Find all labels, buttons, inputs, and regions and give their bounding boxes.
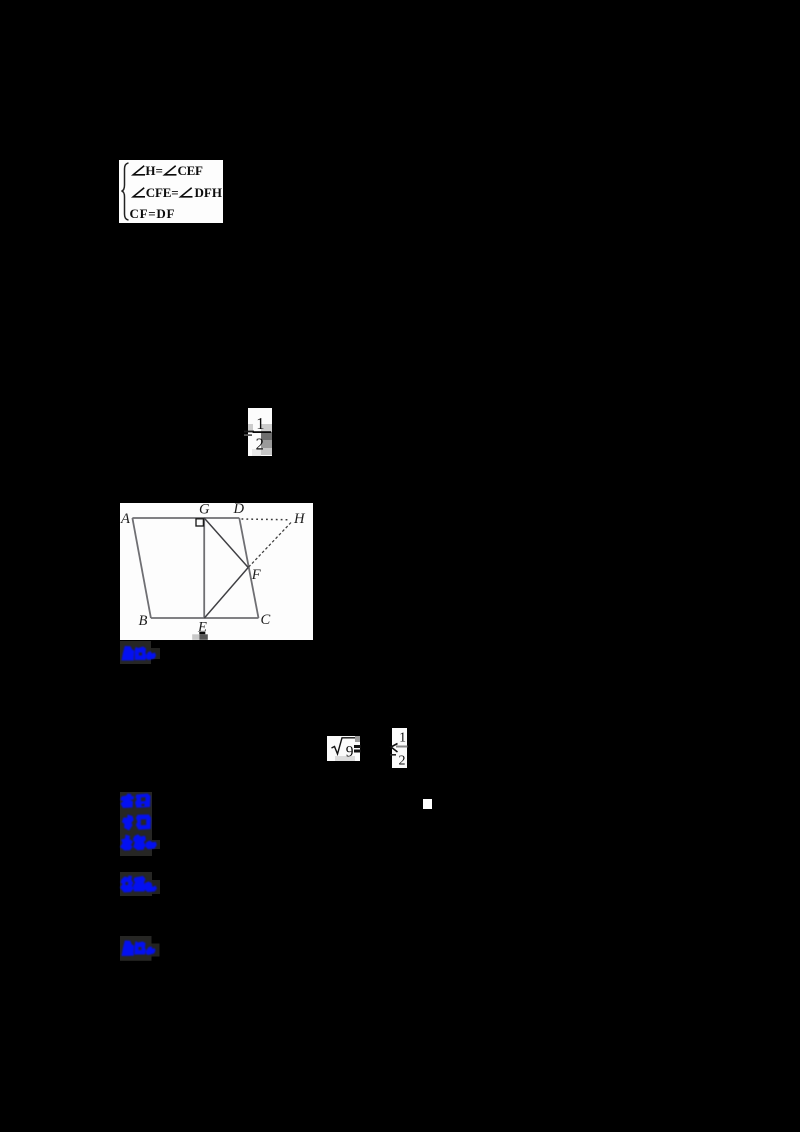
- svg-text:H: H: [293, 511, 306, 527]
- svg-text:9: 9: [346, 744, 354, 761]
- svg-text:F: F: [251, 567, 262, 583]
- svg-text:C: C: [261, 612, 271, 628]
- svg-text:D: D: [233, 503, 245, 517]
- svg-text:G: G: [199, 503, 210, 517]
- svg-text:CF=DF: CF=DF: [130, 206, 175, 221]
- svg-text:A: A: [120, 511, 130, 527]
- svg-text:H=: H=: [145, 163, 163, 178]
- svg-text:1: 1: [256, 414, 264, 433]
- svg-text:B: B: [139, 613, 148, 629]
- svg-text:2: 2: [256, 435, 264, 454]
- svg-text:DFH: DFH: [195, 185, 223, 200]
- svg-text:2: 2: [399, 754, 406, 769]
- svg-text:CFE=: CFE=: [146, 185, 179, 200]
- svg-text:CEF: CEF: [178, 163, 204, 178]
- svg-text:1: 1: [399, 729, 406, 744]
